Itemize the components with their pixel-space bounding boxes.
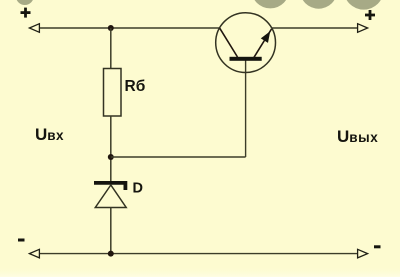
zener diode D cathode bar bbox=[94, 181, 127, 190]
resistor R6 body bbox=[104, 69, 122, 117]
minus terminal left bbox=[18, 239, 25, 242]
transistor base bar bbox=[230, 57, 262, 61]
decorative grey circle 1 top-right bbox=[251, 0, 289, 8]
wire from diode to bottom rail bbox=[110, 208, 112, 254]
node junction on bottom rail bbox=[108, 251, 114, 257]
wire bottom rail bbox=[39, 253, 358, 255]
wire from top node down to resistor bbox=[110, 28, 112, 69]
decorative grey circle 3 top-right bbox=[344, 0, 384, 10]
wire from transistor base bar down to horizontal wire bbox=[245, 60, 247, 157]
node junction between resistor and diode bbox=[108, 154, 114, 160]
decorative grey circle 2 top-right bbox=[300, 0, 337, 9]
bottom white fade bbox=[0, 266, 400, 277]
transistor collector arrowhead bbox=[261, 31, 270, 43]
arrowhead top-right (open) bbox=[358, 24, 368, 33]
decorative grey circle top-left bbox=[16, 0, 34, 5]
transistor collector diagonal (right) bbox=[254, 29, 272, 57]
svg-text:D: D bbox=[133, 181, 143, 197]
zener diode D anode triangle bbox=[95, 185, 126, 208]
plus terminal right bbox=[365, 10, 375, 20]
wire from resistor down to diode bbox=[110, 116, 112, 182]
transistor emitter diagonal (left) bbox=[220, 28, 238, 57]
transistor VT1 circle bbox=[216, 13, 276, 73]
arrowhead bottom-right (open) bbox=[358, 249, 368, 258]
svg-text:Uвых: Uвых bbox=[337, 127, 378, 146]
arrowhead top-left (open) bbox=[29, 24, 39, 33]
node junction on top rail bbox=[108, 25, 114, 31]
wire top rail right segment bbox=[272, 27, 358, 29]
svg-text:Rб: Rб bbox=[125, 78, 146, 95]
svg-text:Uвх: Uвх bbox=[35, 125, 64, 144]
wire top rail left segment bbox=[39, 27, 220, 29]
wire from node to transistor base (horizontal) bbox=[111, 156, 246, 158]
minus terminal right bbox=[374, 245, 381, 248]
arrowhead bottom-left (open) bbox=[29, 249, 39, 258]
plus terminal left bbox=[21, 8, 31, 18]
